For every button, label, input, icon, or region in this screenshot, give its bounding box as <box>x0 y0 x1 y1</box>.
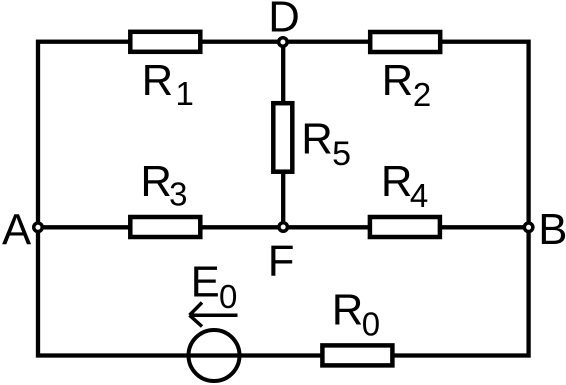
svg-text:R: R <box>381 157 413 206</box>
svg-text:0: 0 <box>362 305 380 342</box>
svg-text:R: R <box>382 56 414 105</box>
svg-text:R: R <box>332 286 364 335</box>
svg-text:1: 1 <box>176 75 194 112</box>
svg-text:B: B <box>538 205 566 254</box>
svg-text:R: R <box>142 56 174 105</box>
svg-text:5: 5 <box>332 135 351 173</box>
svg-text:R: R <box>140 157 172 206</box>
svg-text:R: R <box>301 115 333 164</box>
svg-text:3: 3 <box>169 175 187 212</box>
svg-text:F: F <box>268 236 295 285</box>
svg-text:D: D <box>268 0 300 42</box>
svg-text:E: E <box>191 258 220 307</box>
svg-text:4: 4 <box>410 177 428 214</box>
svg-text:2: 2 <box>413 76 431 113</box>
svg-text:0: 0 <box>219 278 237 315</box>
svg-text:A: A <box>2 206 32 255</box>
